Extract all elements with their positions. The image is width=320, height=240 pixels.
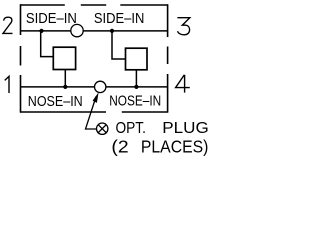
valve box V2 (right square): [126, 48, 148, 70]
leader line to OPT. PLUG symbol: [86, 97, 97, 130]
svg-text:NOSE–IN: NOSE–IN: [109, 92, 161, 109]
leader arrowhead (points to lower port circle): [93, 92, 99, 103]
svg-text:SIDE–IN: SIDE–IN: [26, 9, 77, 26]
enclosure left border (dashed vertical): [20, 4, 22, 112]
enclosure top border (3 dashes): [20, 4, 168, 6]
wire: lower rail: [21, 86, 168, 88]
svg-text:PLUG: PLUG: [162, 120, 208, 137]
wire: drop from node A to valve box V1: [41, 31, 53, 57]
node A (junction dot upper-left): [39, 29, 43, 33]
port circle P1 (upper, on rail): [71, 24, 83, 36]
port circle P2 (lower, on rail): [95, 81, 106, 92]
wire: drop from node B to valve box V2: [112, 31, 125, 59]
node B (junction dot upper-middle): [110, 29, 114, 33]
enclosure bottom border (2 dashes): [20, 111, 168, 113]
node D (junction dot lower-right): [134, 85, 138, 89]
pin number 4 (middle right): [176, 75, 190, 93]
wire: upper rail: [21, 30, 168, 32]
wire: stem from V2 to node D: [135, 70, 137, 87]
svg-text:(2: (2: [111, 136, 128, 156]
wire: stem from V1 to node C: [64, 70, 66, 87]
opt plug symbol (circle with X): [97, 123, 108, 134]
node C (junction dot lower-left): [63, 85, 67, 89]
svg-text:SIDE–IN: SIDE–IN: [94, 9, 144, 26]
pin number 2 (upper left): [3, 17, 13, 33]
pin number 1 (middle left): [5, 76, 9, 93]
svg-text:PLACES): PLACES): [141, 137, 208, 157]
pin number 3 (upper right): [177, 18, 189, 35]
svg-text:NOSE–IN: NOSE–IN: [28, 92, 83, 109]
svg-text:OPT.: OPT.: [116, 120, 146, 137]
valve box V1 (left square): [53, 47, 75, 69]
enclosure right border (dashed vertical): [167, 4, 169, 112]
